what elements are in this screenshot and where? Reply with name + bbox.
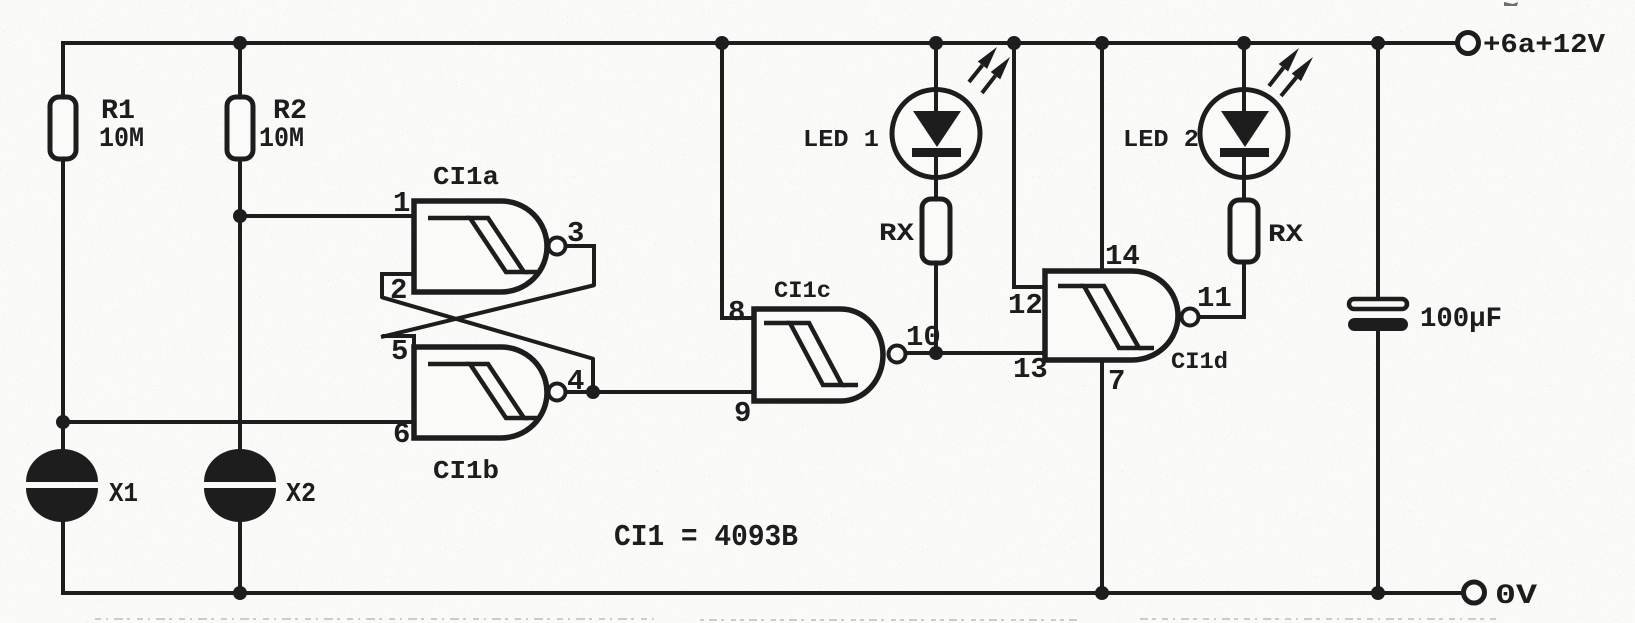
wire pin 8 stub — [720, 316, 756, 320]
resistor R1 — [50, 96, 144, 159]
wire output 10 to pin 13 — [906, 351, 1047, 355]
resistor R2 — [227, 96, 307, 159]
wire LED2 to RX — [1242, 176, 1246, 203]
node top rail pin8 — [715, 36, 729, 50]
node top rail pin12 — [1007, 36, 1021, 50]
wire feedback 4-to-2 diagonal — [381, 297, 594, 359]
svg-text:3: 3 — [567, 217, 584, 250]
svg-text:+6a+12V: +6a+12V — [1483, 31, 1606, 61]
wire +V top rail — [63, 41, 1458, 45]
wire pin 12 vertical — [1012, 41, 1016, 287]
op-amp U1 gate CI1c — [754, 278, 906, 401]
svg-text:RX: RX — [879, 219, 914, 248]
wire feedback 3-to-5 diagonal — [381, 285, 595, 337]
op-amp U1 gate CI1a — [414, 162, 566, 292]
svg-text:X1: X1 — [109, 480, 138, 510]
capacitor C1 100uF — [1348, 299, 1502, 335]
svg-text:CI1 = 4093B: CI1 = 4093B — [614, 520, 798, 555]
svg-text:0V: 0V — [1495, 581, 1537, 612]
svg-text:CI1d: CI1d — [1171, 349, 1228, 375]
op-amp U1 gate CI1d — [1045, 271, 1228, 375]
svg-text:LED 1: LED 1 — [803, 127, 879, 154]
wire LED2 anode — [1242, 41, 1246, 92]
node R2 pin1 — [233, 209, 247, 223]
svg-text:12: 12 — [1008, 289, 1043, 322]
svg-text:10M: 10M — [259, 124, 304, 155]
svg-text:R2: R2 — [273, 96, 307, 127]
wire 0V bottom rail — [63, 591, 1464, 595]
node R1 pin6 — [56, 415, 70, 429]
svg-text:4: 4 — [567, 365, 584, 398]
node top rail R2 — [233, 36, 247, 50]
wire R2 bottom — [238, 158, 242, 217]
resistor RX1 — [879, 199, 950, 263]
svg-text:CI1b: CI1b — [433, 456, 499, 486]
wire LED1 to RX — [934, 176, 938, 201]
wire RX1 bottom — [934, 263, 938, 355]
wire pin 14 — [1100, 41, 1104, 273]
svg-text:6: 6 — [393, 418, 410, 451]
node top rail capacitor — [1371, 36, 1385, 50]
svg-text:13: 13 — [1013, 353, 1048, 386]
svg-text:8: 8 — [728, 296, 745, 329]
node top rail LED1 — [929, 36, 943, 50]
wire output 11 — [1198, 315, 1246, 319]
wire LED1 anode — [934, 41, 938, 92]
wire pin 6 input — [63, 420, 416, 424]
node top rail LED2 — [1237, 36, 1251, 50]
wire pin 5 stub — [382, 336, 414, 349]
wire feedback 4-to-2 vertical — [591, 358, 595, 393]
node output 4 feedback — [586, 385, 600, 399]
wire R1 bottom — [61, 158, 65, 423]
wire capacitor top — [1376, 41, 1380, 301]
node bottom rail capacitor — [1371, 586, 1385, 600]
svg-text:1: 1 — [393, 187, 410, 220]
wire pin 8 vertical — [720, 41, 724, 318]
svg-text:5: 5 — [391, 335, 408, 368]
svg-text:10M: 10M — [99, 124, 144, 155]
wire X2 top — [238, 216, 242, 455]
touch electrode X2 — [204, 449, 316, 522]
resistor RX2 — [1230, 200, 1303, 262]
wire pin 1 input — [240, 214, 416, 218]
op-amp U1 gate CI1b — [414, 347, 566, 486]
svg-text:X2: X2 — [286, 480, 316, 510]
svg-text:RX: RX — [1268, 220, 1303, 249]
wire output 4 to pin 9 — [565, 390, 756, 394]
LED2 — [1123, 48, 1313, 178]
wire output 3 — [565, 244, 594, 248]
wire pin 7 — [1100, 358, 1104, 595]
svg-text:CI1a: CI1a — [433, 162, 499, 192]
node bottom rail pin7 — [1095, 586, 1109, 600]
svg-text:2: 2 — [390, 274, 407, 307]
node bottom rail X2 — [233, 586, 247, 600]
svg-text:LED 2: LED 2 — [1123, 127, 1199, 154]
svg-text:11: 11 — [1197, 282, 1232, 315]
wire pin 12 stub — [1012, 285, 1047, 289]
touch electrode X1 — [26, 449, 138, 522]
wire feedback 3-to-5 vertical — [592, 244, 596, 286]
svg-text:R1: R1 — [101, 96, 135, 127]
svg-text:CI1c: CI1c — [774, 278, 831, 304]
wire X2 bottom — [238, 517, 242, 595]
terminal 0V — [1464, 581, 1538, 612]
node top rail pin14 — [1095, 36, 1109, 50]
terminal +6a+12V — [1458, 31, 1606, 61]
wire R2 top — [238, 41, 242, 99]
svg-text:7: 7 — [1108, 365, 1125, 398]
wire capacitor bottom — [1376, 330, 1380, 595]
wire R1 top — [61, 41, 65, 99]
node output 10 RX1 — [929, 346, 943, 360]
svg-text:14: 14 — [1105, 240, 1140, 273]
wire pin 2 stub — [382, 274, 416, 298]
svg-text:9: 9 — [734, 397, 751, 430]
svg-text:100µF: 100µF — [1420, 304, 1502, 335]
wire RX2 bottom — [1242, 261, 1246, 319]
LED1 — [803, 47, 1010, 178]
wire X1 bottom — [61, 517, 65, 595]
wire X1 top — [61, 422, 65, 455]
